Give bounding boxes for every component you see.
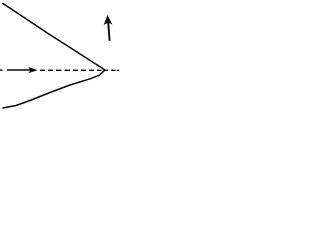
background [0, 0, 122, 111]
dashed centerline (axis) [0, 69, 119, 71]
vertical arrowhead [104, 16, 111, 25]
freestream velocity arrowhead [29, 68, 37, 73]
vertical arrow shaft [108, 23, 109, 41]
freestream velocity arrow shaft [7, 69, 33, 71]
wedge upper surface line [3, 3, 105, 69]
wedge lower surface line [3, 70, 105, 108]
